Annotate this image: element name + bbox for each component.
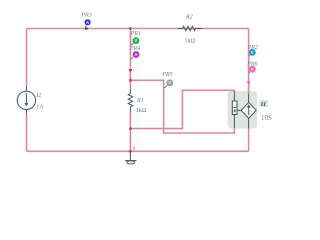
- svg-text:PR3: PR3: [80, 12, 91, 18]
- probe PR6 current probe: [246, 62, 257, 85]
- svg-text:I1: I1: [260, 102, 266, 108]
- svg-text:V: V: [135, 38, 138, 43]
- svg-text:R2: R2: [185, 14, 193, 20]
- wire sense minus: node below R1 to sensing input top: [130, 90, 234, 128]
- wire left lower: I2 to bottom-left corner: [26, 115, 28, 151]
- CCCS U1 sensing input port: [232, 92, 237, 128]
- current source I2: [17, 86, 44, 115]
- CCCS U1 diamond output source: [237, 94, 256, 129]
- svg-text:PR5: PR5: [161, 72, 172, 78]
- svg-text:A: A: [251, 67, 254, 72]
- probe PR2 voltage probe: [247, 45, 258, 57]
- wire middle upper: top junction down to R1: [129, 29, 131, 90]
- svg-text:0: 0: [133, 146, 136, 152]
- svg-text:V: V: [168, 80, 171, 85]
- svg-text:I2: I2: [35, 93, 41, 99]
- junction top at node B: [129, 27, 132, 30]
- probe PR3 current probe: [80, 12, 91, 30]
- probe PR4 current probe: [128, 45, 140, 73]
- junction below R1: [129, 127, 132, 130]
- svg-text:10S: 10S: [261, 114, 272, 122]
- svg-text:PR1: PR1: [130, 31, 141, 37]
- svg-text:V: V: [251, 50, 254, 55]
- selection highlight block behind CCCS U1: [228, 91, 258, 129]
- svg-text:PR4: PR4: [129, 45, 140, 52]
- svg-text:A: A: [134, 52, 137, 57]
- wire bottom: full bottom net: [27, 150, 249, 152]
- wire left: top-left corner down to current source I2: [26, 29, 28, 86]
- wire right upper: top-right corner down to diamond: [248, 29, 250, 94]
- junction above R1: [129, 79, 132, 82]
- junction bottom at ground node 0: [129, 150, 132, 153]
- label I1 of dependent source (selected): [260, 100, 269, 108]
- probe PR5 voltage probe: [161, 72, 173, 88]
- svg-text:R1: R1: [136, 98, 144, 104]
- svg-text:1A: 1A: [36, 104, 44, 110]
- svg-text:1kΩ: 1kΩ: [185, 38, 196, 44]
- resistor R1: [128, 89, 147, 114]
- probe PR1 voltage probe: [130, 31, 141, 45]
- ground: [125, 151, 136, 164]
- wire middle lower: R1 to bottom junction: [129, 112, 131, 151]
- wire top: node A to node D: [27, 28, 249, 30]
- wire right lower: diamond to bottom wire: [248, 129, 250, 152]
- resistor R2: [178, 14, 203, 44]
- wire sense plus: node above R1 to sensing input bottom: [130, 80, 234, 133]
- svg-text:1kΩ: 1kΩ: [136, 108, 147, 114]
- svg-text:A: A: [86, 20, 89, 25]
